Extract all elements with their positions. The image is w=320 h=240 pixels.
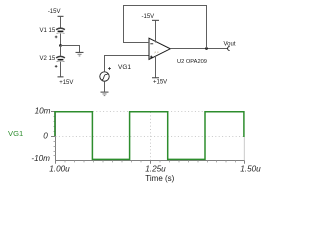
svg-text:1.00u: 1.00u [49, 165, 70, 174]
wire: op-amp top supply pin [155, 20, 157, 42]
chart x-axis with ticks [56, 161, 245, 164]
svg-text:1.50u: 1.50u [240, 165, 261, 174]
svg-text:VG1: VG1 [8, 129, 23, 138]
wire: op-amp bottom supply pin [155, 56, 157, 78]
power rail -15V (battery stack top) [48, 9, 64, 17]
svg-text:0: 0 [43, 132, 48, 141]
svg-text:V1 15: V1 15 [40, 28, 56, 34]
svg-text:↗↗: ↗↗ [154, 51, 160, 55]
svg-text:+15V: +15V [153, 79, 167, 85]
battery V1 [55, 28, 65, 38]
wire: -15V rail to battery V1 [60, 16, 62, 27]
svg-text:10m: 10m [35, 107, 51, 116]
wire: feedback loop (output to inverting input) [124, 6, 207, 49]
terminal Vout [228, 47, 230, 51]
svg-text:VG1: VG1 [118, 64, 131, 71]
wire: VG1 to op-amp non-inverting input [105, 56, 150, 72]
wire: V1 to node A [60, 34, 62, 46]
svg-text:Vout: Vout [224, 41, 236, 47]
ground (VG1) [101, 92, 109, 97]
svg-text:-10m: -10m [31, 154, 50, 163]
svg-text:-15V: -15V [142, 14, 155, 20]
svg-text:U2 OPA209: U2 OPA209 [177, 59, 207, 65]
svg-text:V2 15: V2 15 [40, 56, 56, 62]
svg-text:+15V: +15V [59, 80, 73, 86]
power rail -15V (op-amp top supply) [142, 14, 159, 21]
wire: V2 to +15V rail [60, 62, 62, 77]
svg-text:1.25u: 1.25u [145, 165, 166, 174]
ground (battery mid-node) [76, 52, 84, 57]
voltage generator VG1 [100, 67, 111, 81]
chart y-axis with ticks and gridlines [51, 111, 245, 161]
battery V2 [55, 56, 65, 67]
wire: VG1 to ground [104, 81, 106, 91]
node: output junction [205, 47, 208, 50]
op-amp U2 (triangle) [149, 38, 170, 59]
waveform VG1 trace (square wave) [55, 112, 244, 160]
wire: op-amp output [170, 48, 227, 50]
wire: node A to battery V2 [60, 46, 62, 56]
svg-text:Time (s): Time (s) [145, 174, 174, 183]
power rail +15V (battery stack bottom) [58, 76, 74, 86]
node A (junction dot) [59, 44, 62, 47]
svg-text:-15V: -15V [48, 9, 61, 15]
power rail +15V (op-amp bottom supply) [152, 77, 167, 85]
wire: node A to ground [61, 46, 80, 53]
chart right frame [243, 137, 245, 161]
